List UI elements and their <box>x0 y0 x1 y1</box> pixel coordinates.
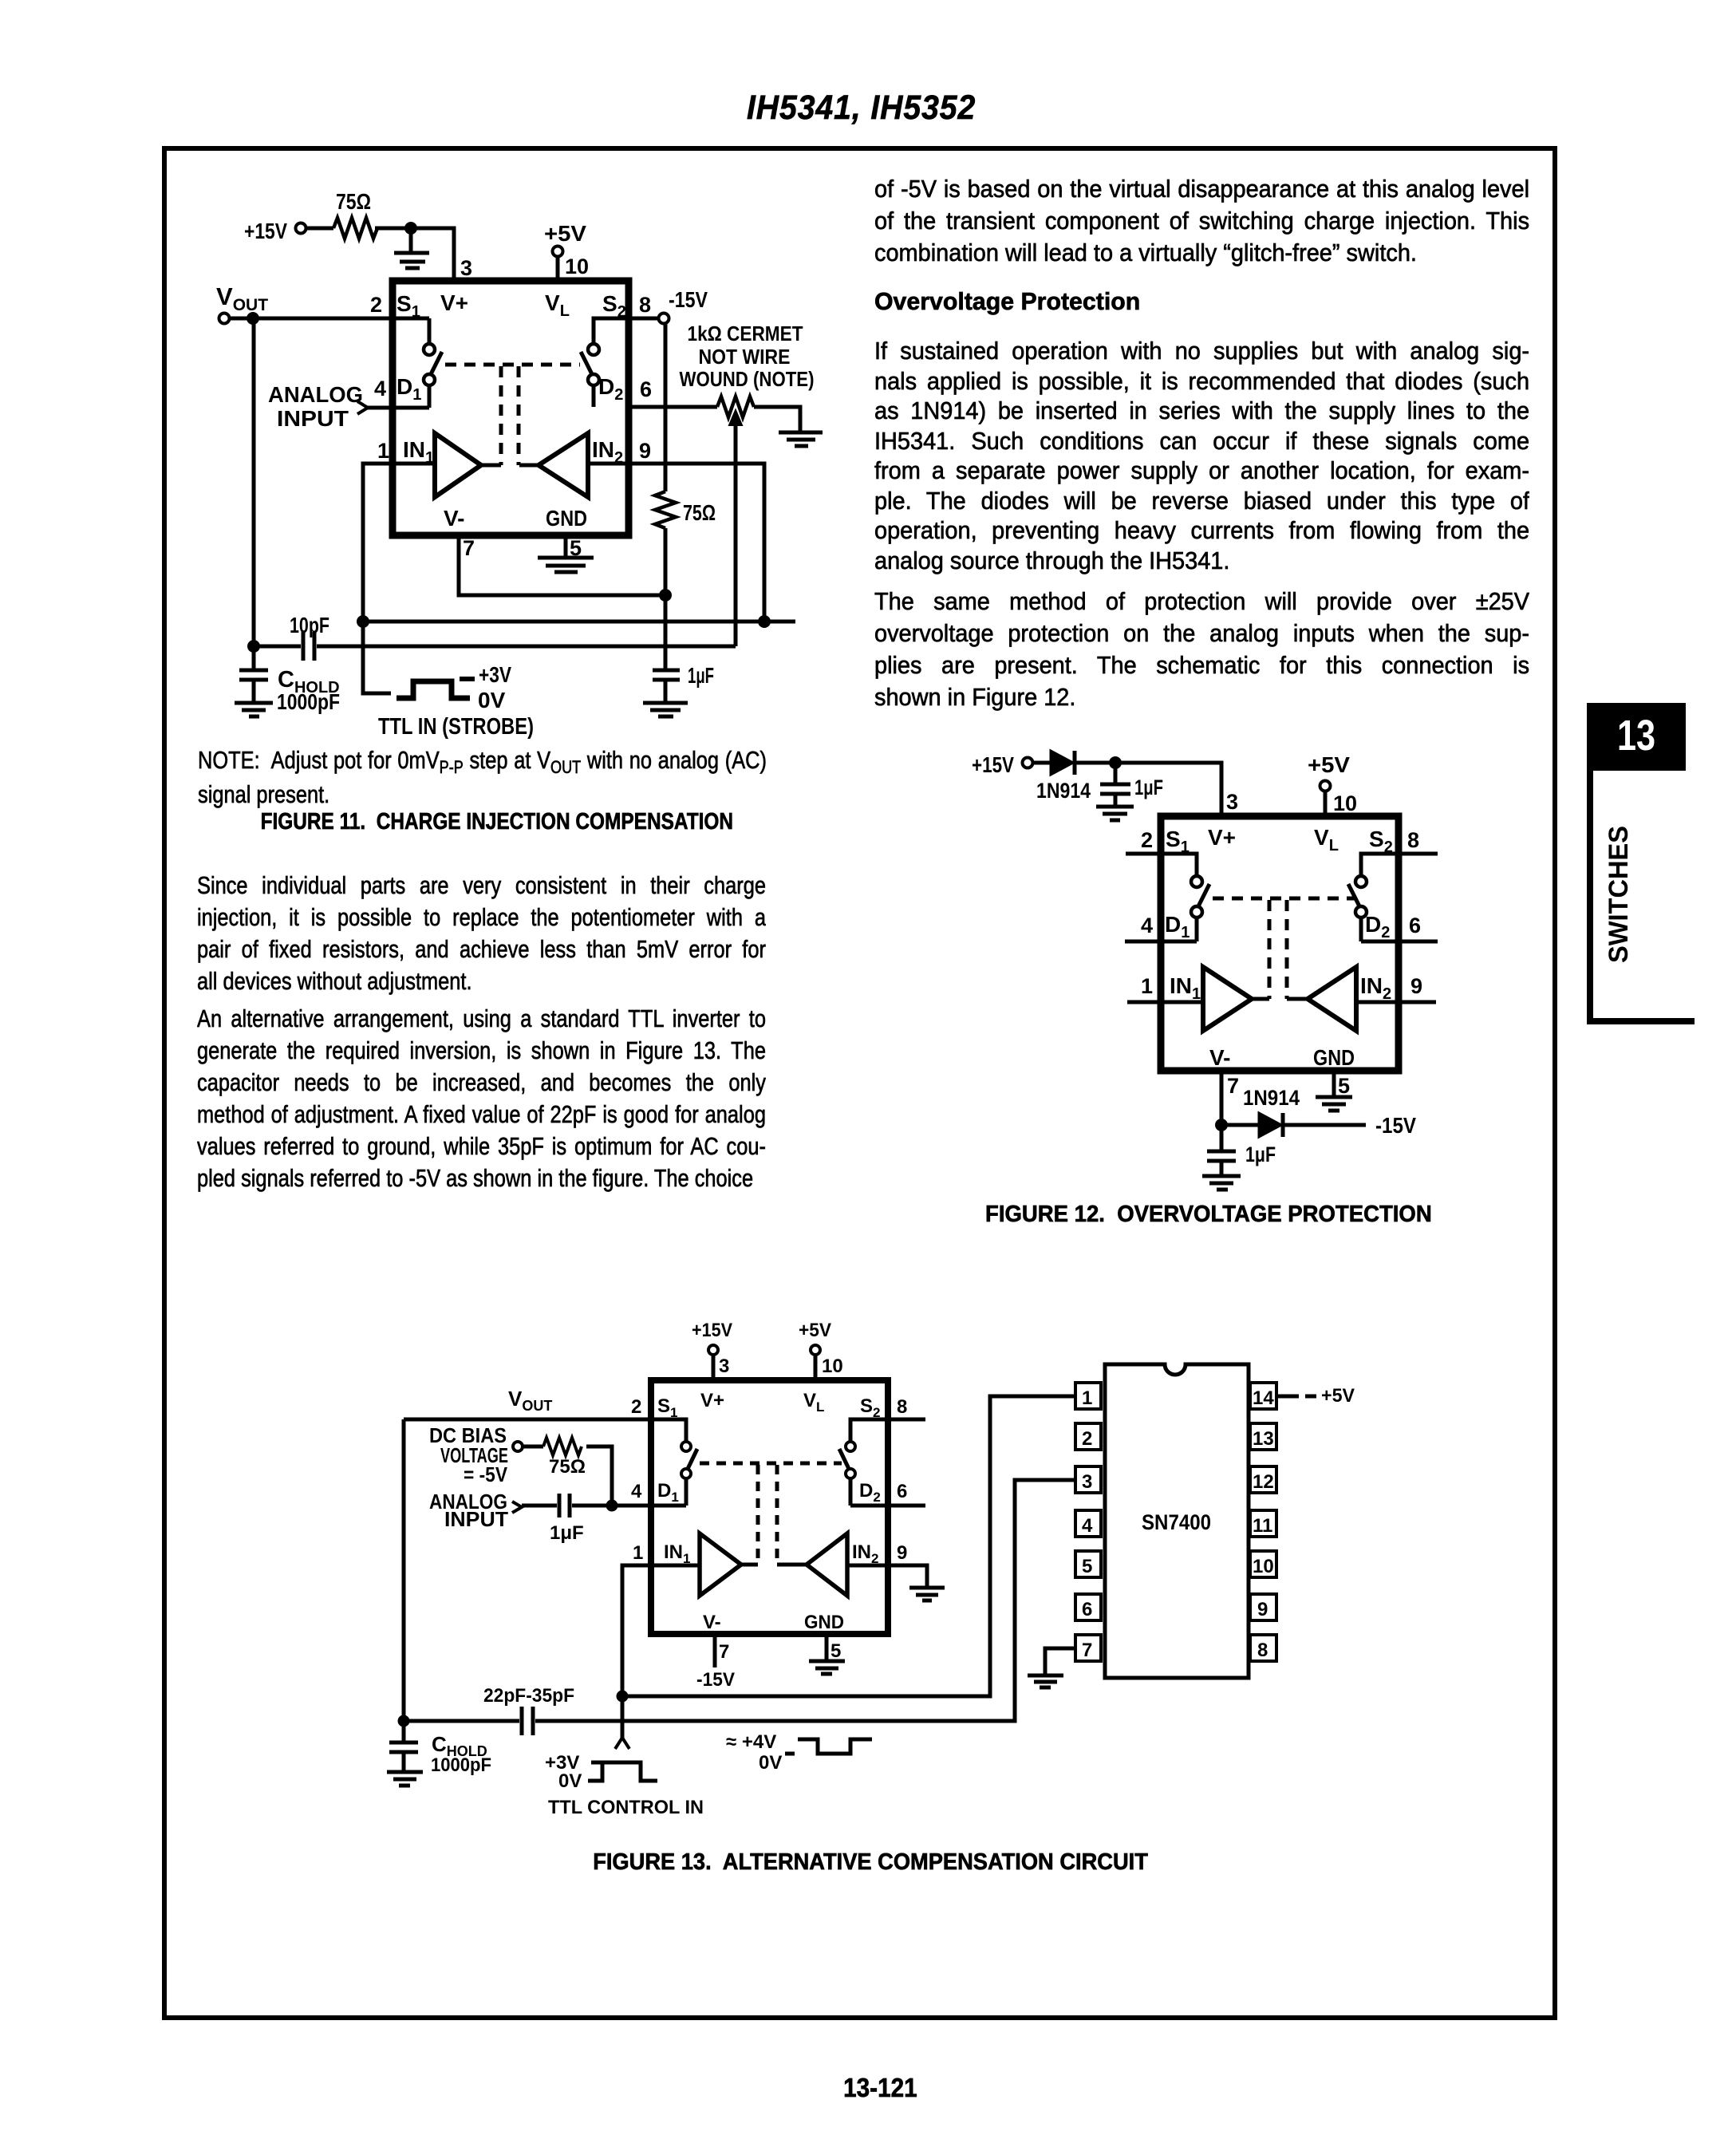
junction at R1 ground tap <box>404 222 417 235</box>
pin4 wire with 1uF cap <box>522 1494 686 1517</box>
svg-text:8: 8 <box>1257 1640 1268 1661</box>
svg-text:1000pF: 1000pF <box>431 1754 491 1776</box>
svg-text:VOUT: VOUT <box>216 282 268 314</box>
switches tab box <box>1587 769 1695 1024</box>
svg-text:-15V: -15V <box>1375 1113 1416 1138</box>
pin4 wire analog input <box>368 406 429 410</box>
figure 12 caption <box>917 1202 1500 1228</box>
switch S2 contact <box>846 1469 855 1478</box>
svg-text:+5V: +5V <box>1321 1385 1355 1407</box>
svg-text:INPUT: INPUT <box>277 406 349 431</box>
switch S1 pole <box>1191 876 1202 887</box>
switch S1 arm <box>688 1449 697 1469</box>
pin1 IN1 wire <box>1127 1000 1203 1004</box>
svg-text:S1: S1 <box>1166 827 1190 856</box>
switch S2 pole <box>846 1442 855 1451</box>
svg-text:2: 2 <box>631 1396 641 1418</box>
svg-text:4: 4 <box>374 377 386 401</box>
svg-text:1N914: 1N914 <box>1036 779 1091 803</box>
svg-text:S1: S1 <box>397 291 420 321</box>
figure 11 caption <box>162 809 832 835</box>
svg-text:+3V: +3V <box>479 662 511 687</box>
svg-text:+5V: +5V <box>544 221 586 246</box>
svg-text:IN1: IN1 <box>1170 973 1201 1003</box>
capacitor C3 1uF <box>643 670 688 716</box>
svg-text:3: 3 <box>1082 1471 1092 1493</box>
IC box IH5341 <box>651 1380 888 1634</box>
switch S1 pole <box>681 1442 691 1451</box>
svg-text:0V: 0V <box>478 688 506 712</box>
svg-text:10pF: 10pF <box>290 613 329 637</box>
left column paragraph 2 <box>197 1003 766 1194</box>
svg-text:7: 7 <box>1227 1074 1239 1098</box>
+4V waveform <box>798 1739 872 1754</box>
pin8 S2 wire to -15V <box>594 318 659 344</box>
switch S1 contact <box>681 1469 691 1478</box>
page number <box>760 2073 1000 2103</box>
pin8 wire <box>1361 854 1438 876</box>
buffer A1 <box>700 1533 741 1596</box>
pin5 GND stub and ground <box>538 535 594 572</box>
svg-text:10: 10 <box>1253 1556 1274 1577</box>
svg-text:V-: V- <box>703 1612 721 1633</box>
svg-text:V+: V+ <box>700 1390 724 1411</box>
svg-text:14: 14 <box>1253 1387 1274 1409</box>
svg-text:7: 7 <box>719 1641 729 1663</box>
right column text <box>874 173 1529 269</box>
switch S2 pole <box>1355 876 1367 887</box>
svg-text:9: 9 <box>897 1542 907 1564</box>
svg-text:VL: VL <box>803 1390 824 1415</box>
pin7 ground wire <box>1028 1648 1075 1687</box>
22pF line with cap <box>404 1480 1075 1735</box>
-15V rail down <box>664 324 668 491</box>
svg-text:8: 8 <box>1407 828 1419 852</box>
svg-text:DC BIASVOLTAGE= -5V: DC BIASVOLTAGE= -5V <box>429 1423 508 1486</box>
svg-text:1000pF: 1000pF <box>277 689 340 714</box>
svg-text:6: 6 <box>897 1481 907 1502</box>
section tab black box 13 <box>1587 703 1686 771</box>
svg-text:4: 4 <box>631 1481 642 1502</box>
VOUT rail down <box>402 1419 406 1742</box>
pin6 wire to pot <box>629 405 717 409</box>
pin7 V- stub <box>459 535 665 595</box>
svg-text:IN1: IN1 <box>664 1541 690 1566</box>
svg-text:4: 4 <box>1082 1515 1093 1537</box>
pin9 IN2 wire <box>588 464 764 622</box>
TTL strobe waveform <box>397 681 470 698</box>
dashed control line <box>445 363 580 367</box>
pin5 stub and ground <box>809 1634 845 1674</box>
buffer A2 <box>1308 967 1356 1031</box>
junction 10pF node <box>247 640 260 653</box>
switch S1 contact D1 <box>424 374 435 385</box>
wire +15V to resistor <box>306 227 333 231</box>
svg-text:S1: S1 <box>657 1395 677 1420</box>
switch S2 arm <box>839 1449 849 1469</box>
switch S2 arm <box>581 352 592 374</box>
dashed vertical left <box>499 366 503 465</box>
svg-text:22pF-35pF: 22pF-35pF <box>483 1685 574 1707</box>
switch S1 arm <box>1198 884 1209 906</box>
pin boxes left <box>1075 1383 1101 1409</box>
svg-text:TTL CONTROL IN: TTL CONTROL IN <box>548 1797 704 1818</box>
svg-text:GND: GND <box>804 1612 844 1633</box>
potentiometer 1k cermet <box>717 397 754 417</box>
pin2 wire VOUT <box>219 314 230 324</box>
dashed control line <box>1213 897 1356 901</box>
left column paragraph 1 <box>197 870 766 997</box>
svg-text:D2: D2 <box>1365 912 1390 941</box>
svg-text:SN7400: SN7400 <box>1142 1510 1211 1534</box>
svg-text:V+: V+ <box>440 290 468 315</box>
svg-text:GND: GND <box>1313 1045 1355 1070</box>
svg-text:S2: S2 <box>1369 827 1393 856</box>
svg-text:1N914: 1N914 <box>1243 1086 1300 1110</box>
junction IN line left <box>357 615 369 628</box>
svg-text:ANALOG: ANALOG <box>268 382 363 407</box>
svg-text:+15V: +15V <box>972 752 1014 777</box>
svg-text:1: 1 <box>377 439 389 463</box>
svg-text:+15V: +15V <box>692 1320 732 1341</box>
wire diode to corner pin3 <box>1075 763 1221 816</box>
svg-text:8: 8 <box>897 1396 907 1418</box>
diode D1 1N914 <box>1051 751 1073 775</box>
svg-text:5: 5 <box>1082 1556 1092 1577</box>
pot wiper arrow <box>734 424 738 646</box>
dashed vertical right <box>517 366 521 465</box>
resistor R1 75ohm <box>333 218 377 239</box>
svg-text:IN2: IN2 <box>1360 973 1391 1003</box>
svg-text:INPUT: INPUT <box>444 1507 508 1531</box>
TTL arrow <box>615 1738 629 1749</box>
buffer A1 <box>1203 967 1252 1031</box>
SN7400 body <box>1105 1364 1249 1678</box>
+15V terminal <box>1023 758 1033 768</box>
pin8 wire <box>850 1419 925 1442</box>
pin1 IN1 wire <box>363 464 435 693</box>
VOUT vertical line <box>252 318 256 670</box>
junction IN line right <box>758 615 771 628</box>
switch S2 contact D2 <box>588 374 599 385</box>
svg-text:7: 7 <box>463 536 475 560</box>
svg-text:2: 2 <box>1141 828 1153 852</box>
svg-text:D1: D1 <box>1165 912 1190 941</box>
pin6 wire <box>1361 940 1438 944</box>
svg-text:4: 4 <box>1141 914 1153 937</box>
wire to SN7400 pin1 <box>622 1396 1075 1696</box>
buffer A2 <box>807 1533 847 1596</box>
resistor 75ohm <box>543 1438 582 1455</box>
svg-text:1μF: 1μF <box>688 663 714 688</box>
+15V terminal <box>296 223 306 234</box>
svg-text:V-: V- <box>1209 1045 1230 1070</box>
svg-text:VL: VL <box>1314 825 1339 854</box>
switch S2 contact <box>1355 906 1367 918</box>
svg-text:7: 7 <box>1082 1640 1092 1661</box>
capacitor CHOLD 1000pF <box>235 670 273 716</box>
page frame <box>162 146 1557 2020</box>
svg-text:V+: V+ <box>1208 825 1236 850</box>
TTL waveform <box>588 1762 657 1781</box>
svg-text:8: 8 <box>639 293 651 317</box>
pin5 stub and ground <box>1316 1071 1352 1111</box>
+5V terminal pin10 <box>1320 781 1331 791</box>
svg-text:1: 1 <box>633 1542 643 1564</box>
svg-text:D1: D1 <box>657 1480 679 1505</box>
svg-text:0V: 0V <box>558 1770 582 1792</box>
svg-text:6: 6 <box>1409 914 1421 937</box>
pin4 wire <box>1125 940 1197 944</box>
ground below R1 junction <box>394 231 429 268</box>
svg-text:0V: 0V <box>759 1752 782 1774</box>
op IC box IH5341 <box>393 281 629 535</box>
pin9 IN2 wire <box>1356 1000 1436 1004</box>
pin14 +5V wire <box>1276 1395 1316 1399</box>
pin9 IN2 wire to ground <box>847 1565 945 1600</box>
svg-text:+5V: +5V <box>799 1320 831 1341</box>
svg-text:6: 6 <box>1082 1599 1092 1620</box>
svg-text:+5V: +5V <box>1308 752 1350 777</box>
svg-text:5: 5 <box>1338 1074 1350 1098</box>
+15V terminal pin3 <box>708 1345 718 1355</box>
svg-text:9: 9 <box>639 439 651 463</box>
svg-text:75Ω: 75Ω <box>549 1456 586 1478</box>
IC box IH5341 <box>1161 816 1399 1071</box>
NOTE under figure 11 <box>198 743 767 811</box>
svg-text:S2: S2 <box>602 291 626 321</box>
figure 13 caption <box>174 1849 1568 1876</box>
svg-text:3: 3 <box>1226 790 1238 814</box>
DC bias terminal <box>513 1442 523 1451</box>
capacitor 1uF left <box>1096 763 1134 820</box>
svg-text:IN2: IN2 <box>852 1541 878 1566</box>
title IH5341, IH5352 <box>747 89 1183 128</box>
svg-text:13: 13 <box>1253 1428 1274 1450</box>
dashed control line <box>700 1462 842 1466</box>
switch S1 pole <box>424 344 435 355</box>
svg-text:-15V: -15V <box>696 1669 735 1691</box>
svg-text:1μF: 1μF <box>1245 1143 1276 1166</box>
svg-text:TTL IN (STROBE): TTL IN (STROBE) <box>378 714 534 740</box>
junction at VOUT node <box>247 312 259 325</box>
switch S2 pole <box>588 344 599 355</box>
svg-text:10: 10 <box>565 255 589 278</box>
svg-text:5: 5 <box>831 1640 841 1662</box>
svg-text:S2: S2 <box>860 1395 880 1420</box>
+5V terminal pin10 <box>811 1345 820 1355</box>
svg-text:1: 1 <box>1082 1387 1092 1409</box>
svg-text:75Ω: 75Ω <box>683 500 716 525</box>
pin2 VOUT wire <box>404 1419 686 1442</box>
10pF line and cap <box>254 632 736 661</box>
svg-text:VL: VL <box>545 290 570 320</box>
svg-text:10: 10 <box>1333 791 1357 815</box>
svg-text:2: 2 <box>370 293 382 317</box>
switch S1 contact <box>1191 906 1202 918</box>
analog input arrow <box>357 401 368 414</box>
pin1 IN1 wire <box>622 1565 700 1696</box>
diode D2 1N914 <box>1221 1123 1259 1127</box>
junction CHOLD node <box>398 1715 410 1727</box>
pin2 wire <box>1126 854 1197 876</box>
svg-text:SWITCHES: SWITCHES <box>1604 826 1634 963</box>
svg-text:+15V: +15V <box>244 219 287 243</box>
svg-text:10: 10 <box>822 1356 843 1377</box>
svg-text:3: 3 <box>719 1356 729 1377</box>
wire resistor to junction <box>586 1446 612 1506</box>
svg-text:≈ +4V: ≈ +4V <box>726 1731 776 1753</box>
pin6 wire <box>850 1504 925 1508</box>
svg-text:1μF: 1μF <box>1134 776 1163 799</box>
svg-text:V-: V- <box>444 506 464 531</box>
svg-text:-15V: -15V <box>669 287 708 312</box>
switches vertical text <box>1587 771 1699 1018</box>
svg-text:75Ω: 75Ω <box>336 189 371 214</box>
svg-text:VOUT: VOUT <box>508 1387 552 1414</box>
pin boxes right <box>1250 1383 1276 1409</box>
svg-text:1μF: 1μF <box>550 1522 584 1544</box>
svg-text:3: 3 <box>460 256 472 280</box>
buffer A1 <box>435 433 481 497</box>
capacitor 1uF bottom <box>1202 1125 1241 1190</box>
svg-text:9: 9 <box>1410 974 1422 998</box>
pin7 stub <box>1220 1071 1224 1125</box>
svg-text:6: 6 <box>640 377 652 401</box>
switch S2 arm <box>1348 884 1359 906</box>
svg-text:2: 2 <box>1082 1428 1092 1450</box>
svg-text:D2: D2 <box>598 374 623 404</box>
svg-text:9: 9 <box>1257 1599 1268 1620</box>
capacitor CHOLD 1000pF <box>387 1742 423 1786</box>
junction TTL control node <box>617 1691 629 1703</box>
+5V terminal pin 10 <box>553 247 563 257</box>
svg-text:D2: D2 <box>859 1480 881 1505</box>
junction at +15V diode output <box>1109 756 1122 769</box>
svg-text:12: 12 <box>1253 1471 1274 1493</box>
wire resistor to pin3 corner <box>375 228 454 281</box>
svg-text:1kΩ CERMETNOT WIREWOUND (NOTE): 1kΩ CERMETNOT WIREWOUND (NOTE) <box>680 322 815 391</box>
IN junction line <box>363 620 795 624</box>
junction analog input node <box>606 1500 618 1512</box>
junction at V- diode node <box>1215 1119 1228 1131</box>
svg-text:1: 1 <box>1141 974 1153 998</box>
svg-text:GND: GND <box>546 506 587 531</box>
junction V- rail <box>659 589 672 602</box>
svg-text:11: 11 <box>1253 1515 1272 1537</box>
resistor R2 75ohm vertical <box>655 491 676 528</box>
TTL control vertical <box>621 1696 625 1738</box>
svg-text:5: 5 <box>570 536 582 560</box>
switch S1 arm <box>431 352 442 374</box>
pin7 stub <box>713 1634 717 1667</box>
buffer A2 <box>539 433 588 497</box>
analog input arrow <box>512 1502 522 1513</box>
svg-text:D1: D1 <box>397 374 421 404</box>
